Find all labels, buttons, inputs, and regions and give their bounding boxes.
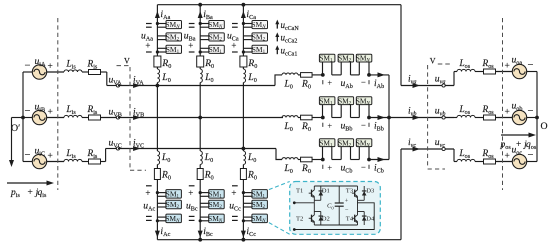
wire O-prime stub left <box>12 117 24 119</box>
resistor Ros phase b <box>484 115 496 120</box>
wire Lis to Ris phase A <box>82 71 89 73</box>
svg-text:O′: O′ <box>11 123 20 134</box>
inductor L0 arm Bb <box>282 116 298 118</box>
wire L0-R0 arm Ab <box>298 74 301 76</box>
wire stubs SM box 2 lower Cc <box>243 202 253 204</box>
svg-text:+: + <box>231 188 236 198</box>
wire stubs SM box 2 Ba <box>200 35 210 37</box>
wire upper leg Aa <box>156 5 158 56</box>
wire source uiB to Lis <box>47 117 64 119</box>
polarity minus lower arm Bc <box>189 215 195 217</box>
inductor L0 arm Ab <box>282 73 298 75</box>
wire va jog up <box>453 72 455 86</box>
submodule SM1 lower arm Ac <box>166 190 182 199</box>
svg-text:+: + <box>505 62 510 72</box>
wire L0-R0 lower Cc <box>242 165 244 169</box>
wire chain segment 1 arm Cb <box>332 159 341 161</box>
wire source uiA to Lis <box>47 71 64 73</box>
wire stubs SM box 3 Ca <box>243 47 253 49</box>
svg-text:+: + <box>231 41 236 51</box>
svg-text:+: + <box>328 163 333 172</box>
wire Ris C to step <box>101 161 106 163</box>
inductor L0 lower arm Bc <box>200 151 202 165</box>
wire chain segment 2 arm Cb <box>351 159 360 161</box>
wire Lis to Ris phase B <box>82 117 89 119</box>
svg-text:−: − <box>528 106 534 117</box>
wire vc row horizontal <box>401 148 454 150</box>
submodule SM1 lower arm Bc <box>209 190 225 199</box>
wire R0-L0 upper Ca <box>242 67 244 69</box>
phase bus VC <box>118 148 276 150</box>
wire stubs SM box 2 Aa <box>157 35 167 37</box>
junction stack bottom lower Bc <box>199 219 202 222</box>
current arrow ivb <box>413 115 421 120</box>
submodule SMN lower arm Ac <box>166 214 182 223</box>
wire chain segment 2 arm Bb <box>351 117 360 119</box>
far right bus <box>536 72 538 162</box>
submodule SMN upper arm Ca <box>252 21 268 29</box>
junction stack top Ba <box>199 22 202 25</box>
wire stubs SM box 1 Ca <box>243 23 253 25</box>
svg-text:−: − <box>345 207 349 214</box>
inset input terminal upper <box>293 201 296 204</box>
wire stubs SM3 arm Ab <box>358 62 360 75</box>
wire stubs SM1 arm Bb <box>322 105 324 118</box>
junction far bus row b / node O <box>535 116 539 120</box>
polarity plus lower arm Bc <box>189 185 195 187</box>
submodule SM2 upper arm Ba <box>209 33 225 41</box>
wire vc jog down <box>453 149 455 162</box>
submodule SM2 lower arm Cc <box>252 200 268 209</box>
resistor R0 lower arm Bc <box>197 169 203 180</box>
inset bottom rail <box>314 224 357 226</box>
submodule SM2 upper arm Aa <box>166 33 182 41</box>
wire R0 to node arm Ab <box>312 74 323 76</box>
svg-text:V: V <box>124 56 130 65</box>
wire source to far bus a <box>527 71 537 73</box>
source uoc <box>512 154 526 168</box>
wire R0 to node arm Cb <box>312 159 323 161</box>
node uva <box>442 84 445 87</box>
junction left node arm Ab <box>321 73 325 77</box>
svg-text:+: + <box>345 198 349 205</box>
wire step down phase A <box>106 72 108 86</box>
wire chain segment 2 arm Ab <box>351 74 360 76</box>
svg-text:+: + <box>48 62 53 72</box>
wire chain segment 1 arm Bb <box>332 117 341 119</box>
phase bus VB <box>118 117 283 119</box>
polarity minus upper arm Ca <box>232 23 238 25</box>
resistor R0 arm Cb <box>301 157 313 162</box>
wire stubs SM box 3 Ba <box>200 47 210 49</box>
wire upper leg Ba to bus <box>199 83 201 118</box>
resistor Ros phase a <box>484 69 496 74</box>
wire stubs SM1 arm Cb <box>322 147 324 160</box>
svg-text:−: − <box>528 60 534 71</box>
resistor R0 arm Ab <box>301 73 313 78</box>
svg-text:D1: D1 <box>322 187 330 194</box>
resistor Ris phase C <box>89 159 101 164</box>
svg-text:+: + <box>188 41 193 51</box>
wire node to bus arm Bb <box>369 117 389 119</box>
wire lower leg Bc through stack <box>199 180 201 240</box>
wire stubs SM3 arm Bb <box>358 105 360 118</box>
node uVB <box>116 116 119 119</box>
resistor R0 upper arm Aa <box>154 56 161 67</box>
junction bus VB leg B <box>198 116 202 120</box>
svg-text:D4: D4 <box>366 216 375 223</box>
svg-text:−: − <box>25 61 31 72</box>
junction bus389 row B <box>387 116 391 120</box>
tick left uBb <box>322 123 324 127</box>
wire step to node uVA <box>107 85 118 87</box>
resistor Ros phase c <box>484 159 496 164</box>
wire T1 emitter to midnode <box>313 200 315 211</box>
inset leader line upper <box>269 182 290 190</box>
wire stubs SM box 1 Aa <box>157 23 167 25</box>
wire Los-Ros c <box>475 161 484 163</box>
junction left node arm Cb <box>321 158 325 162</box>
resistor R0 lower arm Ac <box>154 169 160 180</box>
submodule SMN upper arm Aa <box>166 21 182 29</box>
current arrow iBb <box>378 115 386 120</box>
output power flow p_os + jq_os <box>501 134 530 136</box>
junction stack top Ca <box>242 22 245 25</box>
node uVC <box>116 147 119 150</box>
svg-text:+: + <box>145 188 150 198</box>
wire L0-R0 arm Cb <box>298 159 301 161</box>
wire lower leg Cc from bus <box>242 149 244 152</box>
tick left uAb <box>322 80 324 84</box>
resistor R0 upper arm Ba <box>197 56 204 67</box>
junction top bus leg C <box>242 3 246 7</box>
wire source iC left lead <box>23 161 32 163</box>
wire Ris B to node uVB <box>101 117 119 119</box>
source uiA <box>32 65 46 79</box>
tick left uCb <box>322 165 324 169</box>
wire Los-Ros b <box>475 117 484 119</box>
polarity minus upper arm Aa <box>146 23 152 25</box>
wire top bus down to va row <box>400 5 402 86</box>
junction stack bottom Ba <box>199 50 202 53</box>
submodule SM1 upper arm Aa <box>166 45 182 53</box>
polarity plus lower arm Ac <box>146 185 152 187</box>
junction stack top Aa <box>156 22 159 25</box>
submodule SM2 arm Cb <box>338 139 354 147</box>
diode D2 <box>320 212 322 226</box>
wire L0-R0 lower Bc <box>199 165 201 169</box>
top dc bus <box>157 4 401 6</box>
tick right uBb <box>368 123 370 127</box>
node uvc <box>442 147 445 150</box>
wire stubs SM2 arm Ab <box>340 62 342 75</box>
wire va row horizontal <box>401 85 454 87</box>
wire Ros to source c <box>496 161 513 163</box>
junction bottom bus leg C <box>242 238 246 242</box>
wire Los-Ros a <box>475 71 484 73</box>
capacitor C0 <box>338 186 340 203</box>
svg-text:−: − <box>361 77 366 87</box>
inductor Lis phase B <box>64 115 82 117</box>
submodule SMN arm Bb <box>356 97 372 105</box>
inductor Lis phase A <box>64 70 82 72</box>
wire bus VA step up to arm Ab <box>275 75 282 86</box>
inductor L0 upper arm Aa <box>157 69 159 83</box>
current arrow iCb <box>378 157 386 162</box>
wire stubs SM box 1 lower Ac <box>157 192 167 194</box>
inductor Los phase c <box>457 159 475 161</box>
junction stack bottom Aa <box>156 50 159 53</box>
wire R0 to node arm Bb <box>312 117 323 119</box>
svg-text:+: + <box>505 152 510 162</box>
submodule SM2 upper arm Ca <box>252 33 268 41</box>
svg-text:−: − <box>361 120 366 130</box>
wire jog to Los row b <box>454 117 457 119</box>
phase bus VA <box>118 85 275 87</box>
wire Ris A to step <box>101 71 107 73</box>
svg-text:+: + <box>328 121 333 130</box>
wire jog to Los row a <box>454 71 457 73</box>
svg-text:+: + <box>48 108 53 118</box>
polarity minus lower arm Ac <box>146 215 152 217</box>
current arrow iBa <box>198 11 203 18</box>
junction stack top lower Ac <box>156 191 159 194</box>
wire lower leg Ac through stack <box>156 180 158 240</box>
wire upper leg Ca to bus <box>242 83 244 149</box>
wire source iA left lead <box>23 71 32 73</box>
wire jog to Los row c <box>454 161 457 163</box>
svg-text:−: − <box>528 150 534 161</box>
junction right node arm Cb <box>367 158 371 162</box>
wire source iB left lead <box>23 117 32 119</box>
wire stubs SM box 2 lower Ac <box>157 202 167 204</box>
junction top bus leg B <box>198 3 202 7</box>
wire lower leg Cc through stack <box>242 180 244 240</box>
junction stack bottom Ca <box>242 50 245 53</box>
submodule SM2 lower arm Bc <box>209 200 225 209</box>
inset top rail <box>314 185 357 187</box>
junction bus VC leg C <box>242 147 246 151</box>
svg-text:T1: T1 <box>296 187 303 194</box>
wire L0-R0 arm Bb <box>298 117 301 119</box>
wire stubs SM2 arm Bb <box>340 105 342 118</box>
inductor L0 upper arm Ba <box>200 69 202 83</box>
current arrow iBc <box>198 231 203 238</box>
current arrow iCc <box>241 231 246 238</box>
wire Lis to Ris phase C <box>82 161 89 163</box>
submodule SM1 arm Bb <box>319 97 335 105</box>
submodule SMN upper arm Ba <box>209 21 225 29</box>
inductor Lis phase C <box>64 159 82 161</box>
wire O-prime vertical bus <box>22 72 24 162</box>
tick right uAb <box>368 80 370 84</box>
wire stubs SM box 3 lower Bc <box>200 216 210 218</box>
wire L0-R0 lower Ac <box>156 165 158 169</box>
submodule SMN arm Cb <box>356 139 372 147</box>
submodule SM1 arm Cb <box>319 139 335 147</box>
svg-text:+: + <box>188 188 193 198</box>
source uiC <box>32 154 46 168</box>
bottom dc bus <box>157 239 401 241</box>
submodule SMN arm Ab <box>356 54 372 62</box>
wire stubs SM box 3 Aa <box>157 47 167 49</box>
wire source uiC to Lis <box>47 161 64 163</box>
polarity minus lower arm Cc <box>232 215 238 217</box>
wire upper leg Aa to bus <box>156 83 158 86</box>
wire chain segment 1 arm Ab <box>332 74 341 76</box>
junction stack top lower Cc <box>242 191 245 194</box>
svg-text:−: − <box>361 162 366 172</box>
resistor Ris phase B <box>89 115 101 120</box>
current arrow iAa <box>155 11 160 18</box>
wire stubs SM box 1 lower Cc <box>243 192 253 194</box>
submodule SM2 lower arm Ac <box>166 200 182 209</box>
inset leader line lower <box>269 223 290 235</box>
svg-text:D3: D3 <box>366 187 375 194</box>
wire upper leg Ba <box>199 5 201 56</box>
resistor R0 upper arm Ca <box>240 56 247 67</box>
diode D4 <box>363 212 365 226</box>
transistor T4 <box>357 212 359 216</box>
source uob <box>512 110 526 124</box>
svg-text:V: V <box>430 56 436 65</box>
submodule SMN lower arm Cc <box>252 214 268 223</box>
diode D1 <box>320 186 322 200</box>
junction right node arm Ab <box>367 73 371 77</box>
resistor R0 lower arm Cc <box>240 169 246 180</box>
submodule SM1 upper arm Ba <box>209 45 225 53</box>
junction stack bottom lower Ac <box>156 219 159 222</box>
wire source to far bus b <box>527 117 537 119</box>
transistor T3 <box>357 186 359 190</box>
wire bottom bus up to vc row <box>400 149 402 240</box>
wire step up phase C <box>105 149 107 162</box>
tick right uCb <box>368 165 370 169</box>
source uiB <box>32 110 46 124</box>
inset output wire <box>294 203 374 230</box>
svg-text:−: − <box>25 150 31 161</box>
junction right node arm Bb <box>367 116 371 120</box>
current arrow ivc <box>413 147 421 152</box>
svg-text:D2: D2 <box>322 216 330 223</box>
svg-text:O: O <box>541 121 548 132</box>
junction bottom bus leg B <box>198 238 202 242</box>
inductor L0 arm Cb <box>282 158 298 160</box>
current arrow iAc <box>155 231 160 238</box>
svg-text:T3: T3 <box>346 187 354 194</box>
arm capacitor voltage ucCa1 <box>276 48 278 54</box>
wire stubs SM box 1 lower Bc <box>200 192 210 194</box>
svg-text:+: + <box>145 41 150 51</box>
wire stubs SM box 2 Ca <box>243 35 253 37</box>
output bus vertical x389 <box>388 75 390 160</box>
source uoa <box>512 64 526 78</box>
wire T3 emitter to midnode right <box>357 200 359 211</box>
inductor Los phase a <box>457 69 475 71</box>
wire lower leg Bc from bus <box>199 118 201 152</box>
node uvb <box>442 116 445 119</box>
svg-text:+: + <box>48 152 53 162</box>
junction stack top lower Bc <box>199 191 202 194</box>
dashed boundary line right <box>502 18 504 190</box>
inset input terminal lower <box>293 228 296 231</box>
wire lower leg Ac from bus <box>156 86 158 152</box>
inductor Los phase b <box>457 115 475 117</box>
submodule SM1 lower arm Cc <box>252 190 268 199</box>
current arrow iCa <box>241 11 246 18</box>
wire stubs SM box 1 Ba <box>200 23 210 25</box>
ground reference arrow from O-prime <box>11 118 13 162</box>
node uVA <box>116 84 119 87</box>
current arrow iva <box>413 83 421 88</box>
wire node to bus arm Ab <box>369 74 389 76</box>
resistor R0 arm Bb <box>301 115 313 120</box>
svg-text:−: − <box>25 106 31 117</box>
wire stubs SM box 3 lower Ac <box>157 216 167 218</box>
wire stubs SM2 arm Cb <box>340 147 342 160</box>
wire node to bus arm Cb <box>369 159 389 161</box>
resistor Ris phase A <box>89 70 101 75</box>
submodule SMN lower arm Bc <box>209 214 225 223</box>
wire Ros to source a <box>496 71 513 73</box>
node O-prime <box>21 116 25 120</box>
inset submodule detail box <box>290 182 381 235</box>
junction stack bottom lower Cc <box>242 219 245 222</box>
wire R0-L0 upper Aa <box>156 67 158 69</box>
submodule SM2 arm Bb <box>338 97 354 105</box>
svg-text:+: + <box>328 79 333 88</box>
wire upper leg Ca <box>242 5 244 56</box>
inductor L0 lower arm Ac <box>157 151 159 165</box>
junction bus VA leg A <box>156 84 160 88</box>
current arrow iAb <box>378 72 386 77</box>
wire R0-L0 upper Ba <box>199 67 201 69</box>
wire stubs SM1 arm Ab <box>322 62 324 75</box>
input power flow p_is + jq_is <box>7 182 48 184</box>
inductor L0 lower arm Cc <box>243 151 245 165</box>
dashed boundary line left <box>57 18 59 190</box>
inductor L0 upper arm Ca <box>243 69 245 83</box>
wire Ros to source b <box>496 117 513 119</box>
wire source to far bus c <box>527 161 537 163</box>
submodule SM2 arm Ab <box>338 54 354 62</box>
svg-text:T4: T4 <box>346 216 354 223</box>
junction left node arm Bb <box>321 116 325 120</box>
svg-text:+: + <box>505 108 510 118</box>
svg-text:T2: T2 <box>296 216 303 223</box>
submodule SM1 upper arm Ca <box>252 45 268 53</box>
transistor T1 <box>313 186 315 190</box>
arm capacitor voltage ucCaN <box>276 23 278 29</box>
wire bus VC step down to arm Cb <box>276 149 282 160</box>
wire vb row horizontal <box>389 117 454 119</box>
wire step to node uVC <box>106 148 118 150</box>
wire stubs SM box 3 lower Cc <box>243 216 253 218</box>
submodule SM1 arm Ab <box>319 54 335 62</box>
diode D3 <box>363 186 365 200</box>
wire stubs SM box 2 lower Bc <box>200 202 210 204</box>
arm capacitor voltage ucCa2 <box>276 36 278 42</box>
transistor T2 <box>313 212 315 216</box>
wire stubs SM3 arm Cb <box>358 147 360 160</box>
polarity minus upper arm Ba <box>189 23 195 25</box>
polarity plus lower arm Cc <box>232 185 238 187</box>
